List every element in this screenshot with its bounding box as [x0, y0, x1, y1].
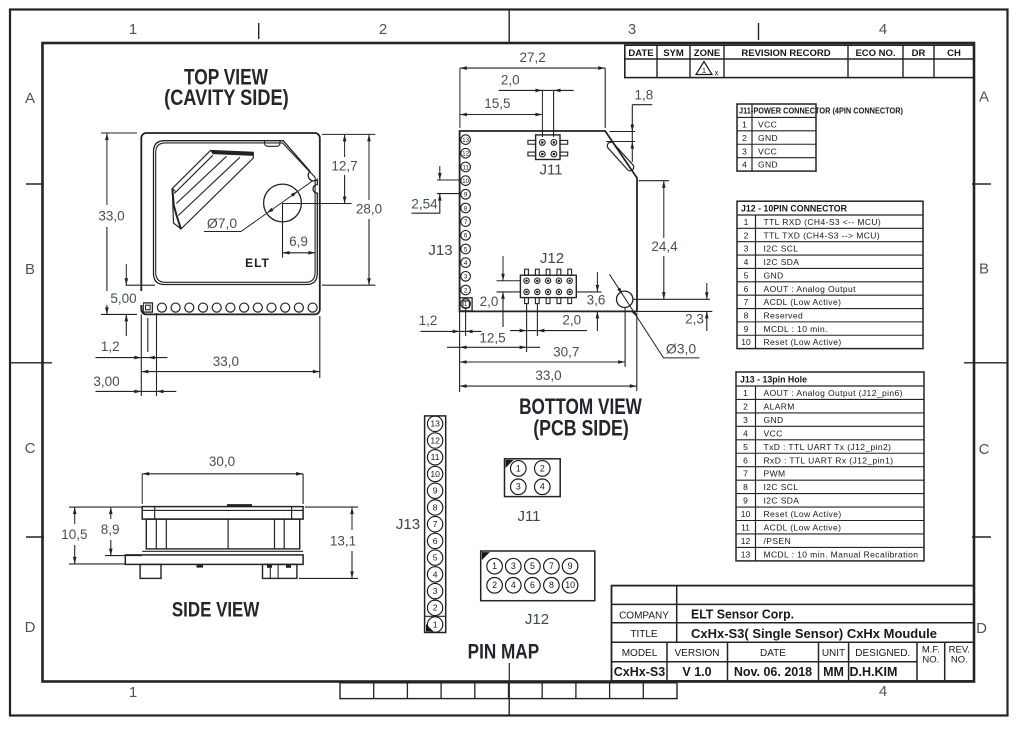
svg-text:AOUT : Analog Output (J12_pin6: AOUT : Analog Output (J12_pin6): [764, 388, 903, 398]
svg-text:2,3: 2,3: [685, 312, 704, 327]
svg-text:J11: J11: [517, 508, 540, 525]
svg-text:Ø7,0: Ø7,0: [207, 215, 238, 231]
SIDE VIEW title: [172, 599, 260, 622]
svg-text:9: 9: [743, 496, 748, 506]
pin map J12: [481, 551, 595, 601]
top view cavity outline: [154, 141, 318, 285]
svg-text:4: 4: [743, 428, 748, 438]
label J11 (bottom view): [539, 162, 562, 179]
bottom view J13 pin holes: [460, 135, 472, 311]
top view circle feature: [264, 184, 302, 222]
svg-text:MM: MM: [823, 665, 844, 679]
svg-text:ZONE: ZONE: [694, 48, 720, 59]
svg-text:1: 1: [129, 684, 137, 701]
top view diagonal prism feature: [172, 151, 253, 230]
svg-text:GND: GND: [758, 133, 778, 143]
dimension 6,9 (top view): [283, 203, 316, 258]
dimension 3,6: [576, 272, 605, 331]
dimension 13,1 (side view): [299, 507, 358, 578]
table J12 10pin connector: [737, 201, 923, 348]
PIN MAP title: [468, 641, 540, 699]
svg-text:ELT: ELT: [245, 256, 270, 270]
svg-text:7: 7: [743, 469, 748, 479]
svg-text:1: 1: [433, 619, 438, 629]
svg-text:NO.: NO.: [922, 655, 939, 666]
svg-text:J13: J13: [428, 242, 452, 259]
svg-text:TTL RXD (CH4-S3 <-- MCU): TTL RXD (CH4-S3 <-- MCU): [764, 217, 882, 227]
svg-text:2: 2: [379, 21, 387, 38]
svg-text:4: 4: [540, 482, 545, 492]
svg-text:TxD : TTL UART Tx (J12_pin2): TxD : TTL UART Tx (J12_pin2): [764, 442, 892, 452]
svg-text:13: 13: [741, 549, 751, 559]
svg-text:CxHx-S3: CxHx-S3: [614, 665, 665, 679]
label J13 (pin map): [396, 516, 420, 533]
svg-text:10: 10: [462, 178, 470, 185]
title block: [612, 586, 975, 681]
svg-text:(PCB SIDE): (PCB SIDE): [533, 416, 629, 441]
dimension 12,5: [447, 304, 540, 392]
svg-text:2: 2: [744, 230, 749, 240]
bottom film strip boxes: [340, 683, 677, 699]
svg-text:GND: GND: [764, 415, 784, 425]
dimension 1,2 (bottom view): [419, 309, 482, 336]
svg-text:2: 2: [433, 603, 438, 613]
svg-text:SIDE VIEW: SIDE VIEW: [172, 599, 260, 622]
table J13 13pin hole: [736, 372, 924, 561]
revision record table: [625, 45, 974, 77]
svg-text:5: 5: [464, 246, 468, 253]
svg-text:8,9: 8,9: [101, 522, 120, 537]
dimension 24,4: [633, 181, 710, 300]
top view castellated holes row: [143, 303, 317, 312]
svg-text:1: 1: [743, 388, 748, 398]
table J11 power connector: [737, 104, 903, 171]
drawing sheet inner border: [43, 43, 975, 682]
svg-text:5,00: 5,00: [110, 291, 136, 306]
svg-text:3: 3: [744, 244, 749, 254]
svg-text:DATE: DATE: [760, 648, 786, 659]
svg-text:13,1: 13,1: [330, 534, 356, 549]
svg-text:3: 3: [433, 586, 438, 596]
dimension 15,5: [460, 96, 543, 116]
dimension 30,0 (side view): [142, 453, 303, 504]
svg-text:I2C SDA: I2C SDA: [764, 257, 800, 267]
svg-text:VCC: VCC: [758, 146, 777, 156]
svg-text:DATE: DATE: [628, 48, 653, 59]
svg-text:1: 1: [464, 301, 468, 308]
dimension 2,3: [637, 283, 712, 331]
dimension 2,0 J11 columns: [499, 72, 574, 137]
svg-text:27,2: 27,2: [519, 50, 545, 65]
svg-text:4: 4: [742, 160, 747, 170]
svg-text:11: 11: [741, 523, 750, 533]
svg-text:MODEL: MODEL: [622, 648, 658, 659]
svg-text:D.H.KIM: D.H.KIM: [850, 665, 898, 679]
svg-text:10: 10: [565, 580, 575, 590]
svg-text:(CAVITY SIDE): (CAVITY SIDE): [164, 85, 289, 110]
svg-text:24,4: 24,4: [651, 239, 678, 254]
svg-text:4: 4: [511, 580, 516, 590]
TOP VIEW title: [164, 65, 289, 111]
svg-text:3: 3: [743, 415, 748, 425]
svg-text:11: 11: [431, 452, 440, 462]
svg-text:1,2: 1,2: [419, 313, 438, 328]
dimension 33,0 left (top view): [98, 133, 137, 314]
svg-text:12,7: 12,7: [331, 159, 357, 174]
pin map J11: [505, 459, 561, 497]
dimension diameter 3,0 leader: [610, 274, 700, 358]
dimension 33,0 (bottom view): [460, 313, 637, 391]
ELT logo text: [245, 256, 270, 270]
svg-text:GND: GND: [758, 160, 778, 170]
svg-text:2: 2: [743, 401, 748, 411]
svg-text:3: 3: [464, 274, 468, 281]
svg-text:2: 2: [464, 287, 468, 294]
svg-text:SYM: SYM: [663, 48, 684, 59]
svg-text:J12 - 10PIN CONNECTOR: J12 - 10PIN CONNECTOR: [741, 204, 848, 214]
svg-text:6: 6: [464, 233, 468, 240]
bottom view chamfer slot: [606, 141, 635, 173]
svg-text:9: 9: [433, 486, 438, 496]
svg-text:CH: CH: [947, 48, 961, 59]
svg-text:6: 6: [744, 284, 749, 294]
svg-text:DR: DR: [912, 48, 926, 59]
svg-text:5: 5: [743, 442, 748, 452]
svg-text:6: 6: [433, 536, 438, 546]
svg-text:30,7: 30,7: [553, 345, 579, 360]
svg-text:ACDL (Low Active): ACDL (Low Active): [764, 523, 842, 533]
svg-text:RxD : TTL UART Rx (J12_pin1): RxD : TTL UART Rx (J12_pin1): [764, 455, 894, 465]
mounting hole 3,0: [617, 291, 633, 307]
dimension 33,0 bottom (top view): [141, 316, 319, 378]
svg-text:4: 4: [879, 683, 887, 700]
svg-text:B: B: [979, 261, 989, 278]
pin map J13 strip: [425, 416, 446, 633]
dimension 1,8 chamfer: [606, 86, 658, 162]
svg-text:9: 9: [744, 324, 749, 334]
svg-text:ELT Sensor Corp.: ELT Sensor Corp.: [691, 608, 794, 622]
svg-text:3: 3: [511, 561, 516, 571]
svg-text:4: 4: [433, 569, 438, 579]
svg-text:VCC: VCC: [764, 428, 783, 438]
dimension 3,00 (top view): [93, 374, 176, 393]
svg-text:11: 11: [462, 164, 469, 171]
svg-text:1: 1: [742, 119, 747, 129]
svg-text:33,0: 33,0: [98, 209, 124, 224]
svg-text:ALARM: ALARM: [764, 401, 795, 411]
svg-text:REVISION RECORD: REVISION RECORD: [741, 48, 830, 59]
svg-text:I2C SDA: I2C SDA: [764, 496, 800, 506]
dimension 10,5 (side view): [61, 507, 142, 564]
svg-text:5: 5: [744, 270, 749, 280]
top view module outline: [141, 133, 319, 314]
svg-text:GND: GND: [764, 270, 784, 280]
svg-text:30,0: 30,0: [209, 454, 235, 469]
svg-text:33,0: 33,0: [213, 354, 239, 369]
svg-text:C: C: [25, 440, 36, 457]
svg-text:TTL TXD (CH4-S3 --> MCU): TTL TXD (CH4-S3 --> MCU): [764, 230, 881, 240]
svg-text:Reset (Low Active): Reset (Low Active): [764, 337, 842, 347]
svg-text:3: 3: [516, 482, 521, 492]
svg-text:4: 4: [464, 260, 468, 267]
dimension 12,7 (top view): [283, 134, 358, 203]
svg-text:10,5: 10,5: [61, 527, 87, 542]
svg-text:28,0: 28,0: [356, 202, 382, 217]
dimension 5,00 (top view): [105, 264, 155, 336]
bottom view module outline: [460, 131, 637, 311]
svg-text:1: 1: [129, 21, 137, 38]
BOTTOM VIEW title: [519, 394, 642, 441]
svg-text:7: 7: [549, 561, 554, 571]
svg-text:ECO NO.: ECO NO.: [855, 48, 895, 59]
label J11 (pin map): [517, 508, 540, 525]
svg-text:V 1.0: V 1.0: [682, 665, 711, 679]
svg-text:DESIGNED.: DESIGNED.: [855, 648, 910, 659]
svg-text:1: 1: [702, 66, 706, 75]
svg-text:7: 7: [744, 297, 749, 307]
svg-text:6: 6: [743, 455, 748, 465]
svg-text:I2C SCL: I2C SCL: [764, 482, 799, 492]
svg-text:A: A: [979, 89, 989, 106]
svg-text:MCDL : 10 min. Manual Recalibr: MCDL : 10 min. Manual Recalibration: [764, 549, 919, 559]
svg-text:COMPANY: COMPANY: [619, 610, 669, 621]
svg-text:Reserved: Reserved: [764, 311, 804, 321]
svg-text:7: 7: [464, 219, 468, 226]
svg-text:5: 5: [530, 561, 535, 571]
svg-text:J12: J12: [525, 611, 549, 628]
svg-text:MCDL : 10 min.: MCDL : 10 min.: [764, 324, 828, 334]
svg-text:9: 9: [464, 192, 468, 199]
svg-text:AOUT : Analog Output: AOUT : Analog Output: [764, 284, 857, 294]
svg-text:CxHx-S3( Single Sensor) CxHx M: CxHx-S3( Single Sensor) CxHx Moudule: [691, 626, 937, 641]
svg-text:13: 13: [462, 137, 470, 144]
svg-text:PIN MAP: PIN MAP: [468, 641, 540, 664]
svg-text:ACDL (Low Active): ACDL (Low Active): [764, 297, 842, 307]
svg-text:4: 4: [879, 21, 887, 38]
revision triangle symbol: [696, 62, 719, 78]
svg-text:2: 2: [492, 580, 497, 590]
svg-text:8: 8: [743, 482, 748, 492]
svg-text:2,0: 2,0: [562, 313, 581, 328]
svg-text:6,9: 6,9: [289, 234, 308, 249]
svg-text:15,5: 15,5: [484, 96, 510, 111]
dimension 2,0 J12 columns: [510, 304, 587, 336]
svg-text:10: 10: [741, 509, 751, 519]
svg-text:33,0: 33,0: [535, 368, 561, 383]
dimension diameter 7,0 leader: [204, 181, 312, 232]
side view body: [125, 505, 303, 578]
svg-text:3,6: 3,6: [587, 293, 606, 308]
svg-text:12,5: 12,5: [479, 331, 505, 346]
svg-text:UNIT: UNIT: [822, 648, 845, 659]
svg-text:3,00: 3,00: [93, 374, 119, 389]
svg-text:J13: J13: [396, 516, 420, 533]
svg-text:C: C: [979, 441, 990, 458]
svg-text:2,0: 2,0: [501, 72, 520, 87]
svg-text:B: B: [25, 261, 35, 278]
svg-text:A: A: [25, 90, 35, 107]
svg-text:J11-POWER CONNECTOR (4PIN CONN: J11-POWER CONNECTOR (4PIN CONNECTOR): [739, 105, 903, 115]
svg-text:Nov. 06. 2018: Nov. 06. 2018: [734, 665, 812, 679]
svg-text:J13 - 13pin Hole: J13 - 13pin Hole: [740, 374, 807, 384]
svg-text:I2C SCL: I2C SCL: [764, 244, 799, 254]
svg-text:/PSEN: /PSEN: [764, 536, 792, 546]
svg-text:VCC: VCC: [758, 119, 777, 129]
svg-text:VERSION: VERSION: [674, 648, 719, 659]
svg-text:8: 8: [464, 205, 468, 212]
label J12 (bottom view): [540, 250, 564, 267]
svg-text:6: 6: [530, 580, 535, 590]
svg-text:2,0: 2,0: [480, 294, 499, 309]
svg-text:10: 10: [741, 337, 751, 347]
svg-text:x: x: [715, 69, 719, 78]
svg-text:2: 2: [540, 463, 545, 473]
connector J12 (bottom view): [520, 269, 576, 303]
dimension 28,0 (top view): [322, 134, 382, 285]
label J13 (bottom view): [428, 242, 452, 259]
dimension 27,2: [460, 50, 605, 128]
svg-text:5: 5: [433, 553, 438, 563]
dimension 2,0 J12 rows: [480, 256, 521, 327]
svg-text:2: 2: [742, 133, 747, 143]
svg-text:Ø3,0: Ø3,0: [666, 340, 697, 356]
svg-text:TITLE: TITLE: [630, 629, 658, 640]
svg-text:3: 3: [628, 21, 636, 38]
svg-text:1: 1: [492, 561, 497, 571]
svg-text:PWM: PWM: [764, 469, 786, 479]
svg-text:D: D: [25, 619, 36, 636]
svg-text:D: D: [976, 620, 987, 637]
svg-text:8: 8: [549, 580, 554, 590]
svg-text:4: 4: [744, 257, 749, 267]
svg-text:3: 3: [742, 146, 747, 156]
dimension 1,2 (top view): [96, 313, 168, 396]
svg-text:1: 1: [744, 217, 749, 227]
svg-text:2,54: 2,54: [411, 197, 438, 212]
dimension 8,9 (side view): [101, 507, 142, 555]
svg-text:NO.: NO.: [951, 655, 968, 666]
label J12 (pin map): [525, 611, 549, 628]
svg-text:J12: J12: [540, 250, 564, 267]
svg-text:9: 9: [568, 561, 573, 571]
svg-text:J11: J11: [539, 162, 562, 179]
dimension 2,54 J13 pitch: [411, 166, 461, 213]
svg-text:7: 7: [433, 519, 438, 529]
svg-text:Reset (Low Active): Reset (Low Active): [764, 509, 842, 519]
svg-text:12: 12: [741, 536, 751, 546]
svg-text:1,8: 1,8: [635, 88, 654, 103]
svg-text:1: 1: [516, 463, 521, 473]
svg-text:10: 10: [430, 469, 440, 479]
svg-text:8: 8: [744, 311, 749, 321]
svg-text:13: 13: [430, 419, 440, 429]
svg-text:1,2: 1,2: [101, 339, 120, 354]
svg-text:12: 12: [462, 151, 470, 158]
svg-text:8: 8: [433, 502, 438, 512]
connector J11 (bottom view): [528, 135, 568, 160]
svg-text:12: 12: [430, 435, 440, 445]
dimension 30,7: [460, 308, 625, 367]
